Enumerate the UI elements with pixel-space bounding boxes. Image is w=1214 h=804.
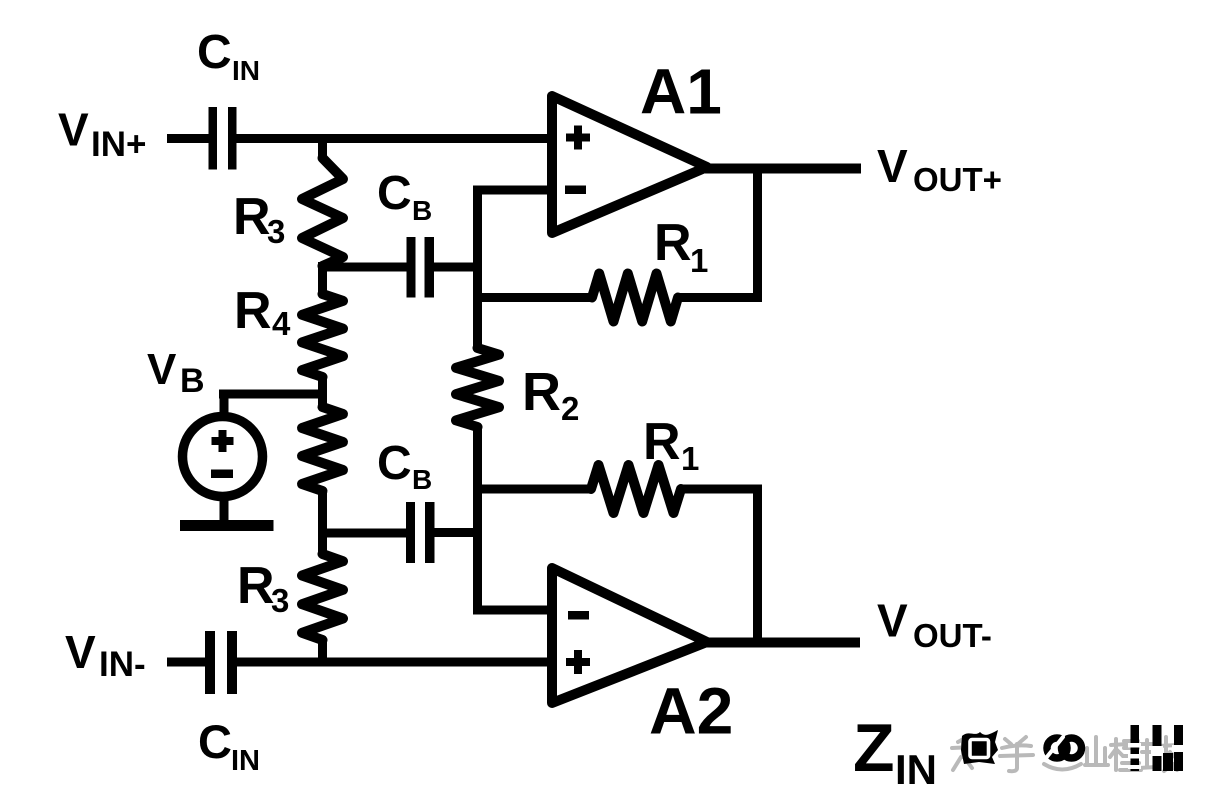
label R2 (522, 362, 579, 427)
watermark black infinity/at symbol (1047, 738, 1082, 758)
svg-text:Z: Z (853, 710, 895, 786)
label V_IN- (65, 626, 146, 684)
svg-text:R: R (654, 214, 692, 272)
label V_B (147, 345, 205, 400)
wire C_B top to inverting bus (434, 263, 482, 272)
op-amp A2 (552, 568, 707, 703)
source V_B minus (211, 470, 233, 479)
svg-text:V: V (65, 626, 96, 678)
wire input- lead (167, 658, 206, 667)
wire top rail (237, 134, 553, 143)
svg-text:1: 1 (690, 242, 708, 279)
source V_B circle (183, 417, 263, 497)
op-amp A2 plus sign (566, 650, 590, 674)
svg-text:OUT+: OUT+ (913, 161, 1002, 198)
resistor R1 (bottom) left wire (473, 485, 592, 494)
label R1 (top) (654, 214, 708, 279)
svg-text:A2: A2 (649, 674, 733, 748)
svg-text:IN-: IN- (99, 645, 146, 684)
label R3 (bottom) (237, 557, 289, 619)
svg-text:IN: IN (895, 746, 937, 793)
wire V_B to ground (220, 497, 229, 523)
source V_B plus (212, 430, 234, 452)
label C_B (top) (377, 167, 432, 226)
wire R1 bottom to output (753, 489, 762, 647)
watermark black glyph fragment over zhi (961, 730, 998, 764)
svg-text:IN: IN (232, 55, 260, 86)
svg-text:C: C (377, 437, 412, 490)
watermark black bar 1 (1131, 725, 1140, 771)
wire A1 inverting input (473, 186, 549, 195)
svg-text:3: 3 (267, 213, 285, 250)
wire to C_B bottom node (318, 490, 327, 555)
resistor R1 (top) right wire (677, 293, 762, 302)
wire A2 output (705, 638, 860, 648)
op-amp A1 plus sign (566, 126, 590, 150)
svg-text:OUT-: OUT- (913, 617, 992, 654)
svg-text:C: C (198, 715, 232, 768)
svg-text:2: 2 (561, 390, 579, 427)
svg-text:B: B (180, 362, 205, 400)
resistor R1 (top) (592, 274, 678, 322)
resistor R4 (302, 294, 343, 377)
watermark white square knockout (970, 740, 989, 758)
label C_IN (top) (197, 26, 260, 86)
wire R1 top to output (753, 164, 762, 302)
capacitor C_IN (bottom) (205, 631, 237, 694)
label C_B (bottom) (377, 437, 432, 495)
label R1 (bottom) (643, 413, 699, 477)
resistor R4 lower (302, 407, 343, 491)
resistor R1 (bottom) right wire (680, 485, 762, 494)
svg-text:IN+: IN+ (91, 125, 146, 164)
svg-text:C: C (197, 26, 232, 79)
watermark zhihu @shanzhaqiu (952, 725, 1184, 771)
svg-text:3: 3 (271, 582, 289, 619)
wire bottom rail (237, 658, 552, 667)
watermark black bar 3 (1174, 725, 1183, 771)
op-amp A1 (552, 96, 707, 233)
resistor R2 (456, 348, 499, 427)
node junction top of R3 (318, 134, 327, 159)
label R3 (top) (233, 188, 285, 250)
op-amp A1 minus sign (565, 186, 586, 195)
wire A2 inverting input (473, 606, 549, 615)
svg-text:1: 1 (681, 440, 699, 477)
svg-text:IN: IN (231, 745, 260, 777)
label Z_IN (853, 710, 937, 793)
svg-text:R: R (233, 188, 271, 246)
svg-text:R: R (643, 413, 681, 471)
svg-text:V: V (147, 345, 177, 394)
label R4 (234, 282, 291, 342)
ground (180, 520, 274, 531)
svg-text:V: V (58, 104, 89, 156)
svg-text:A1: A1 (640, 56, 722, 128)
wire V_B node (318, 376, 327, 408)
wire node to C_B top (318, 262, 327, 272)
svg-text:B: B (412, 195, 432, 226)
resistor R1 (bottom) (591, 465, 681, 513)
wire R3 bottom stub (318, 639, 327, 666)
capacitor C_IN (top) (209, 107, 237, 170)
wire input+ lead (167, 134, 209, 143)
svg-text:C: C (377, 167, 412, 220)
svg-text:R: R (522, 362, 561, 422)
wire C_B bottom to inverting bus (435, 528, 483, 537)
resistor R3 (top) (302, 158, 343, 266)
label V_OUT+ (877, 140, 1002, 198)
svg-text:B: B (412, 464, 432, 495)
label C_IN (bottom) (198, 715, 260, 777)
op-amp A2 minus sign (568, 611, 589, 620)
watermark black bar 2 (1153, 725, 1162, 771)
label V_IN+ (58, 104, 146, 165)
label V_OUT- (877, 595, 992, 655)
capacitor C_B (bottom) (406, 502, 435, 563)
watermark white notches on bars (1128, 743, 1184, 769)
resistor R1 (top) left wire (473, 293, 593, 302)
svg-text:V: V (877, 140, 908, 192)
resistor R3 (bottom) (302, 554, 343, 640)
svg-text:R: R (234, 282, 272, 340)
svg-text:R: R (237, 557, 275, 615)
svg-text:V: V (877, 595, 908, 647)
wire inverting bus upper (473, 186, 482, 350)
wire inverting bus lower (473, 426, 482, 615)
svg-text:4: 4 (272, 305, 291, 342)
wire R3 to R4 (318, 265, 327, 295)
wire A1 output (705, 164, 861, 174)
capacitor C_B (top) (407, 237, 435, 298)
